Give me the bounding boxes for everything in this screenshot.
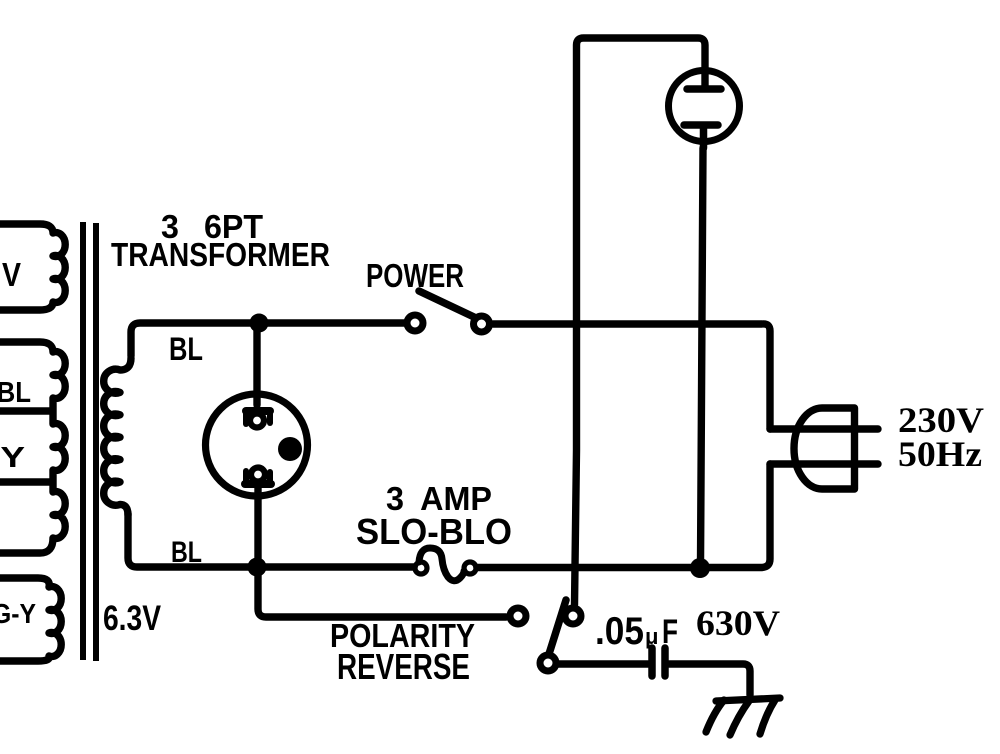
svg-text:V: V: [2, 256, 21, 293]
wire W2 tap -Y: [0, 478, 50, 485]
transformer T1 primary winding: [104, 358, 131, 515]
plug P1 top prong: [770, 425, 878, 432]
fuse F1 left terminal: [415, 562, 427, 574]
svg-text:BL: BL: [169, 331, 203, 367]
switch S1 POWER right contact: [474, 316, 490, 332]
connector J1 bottom pin: [245, 468, 271, 485]
svg-text:SLO-BLO: SLO-BLO: [356, 511, 512, 552]
junction dot bottom rail / lamp lead: [690, 558, 710, 578]
connector J1 top pin: [246, 411, 270, 428]
wire capacitor to ground: [669, 664, 750, 695]
wire bottom rail right: [477, 464, 770, 568]
ground: [706, 698, 780, 735]
transformer T1 secondary winding W3: [0, 578, 61, 661]
svg-text:630V: 630V: [696, 603, 780, 643]
switch S1 POWER blade: [419, 291, 474, 317]
switch S2 contact B: [565, 608, 581, 624]
svg-text:50Hz: 50Hz: [898, 434, 982, 474]
neon lamp DS1: [669, 71, 740, 149]
wire lamp bottom lead: [701, 148, 704, 564]
svg-text:6.3V: 6.3V: [103, 599, 162, 638]
svg-text:F: F: [662, 613, 678, 651]
switch S2 blade: [549, 600, 566, 654]
svg-text:-Y: -Y: [0, 442, 25, 474]
svg-text:μ: μ: [645, 624, 658, 649]
transformer T1 secondary winding W2: [0, 342, 65, 553]
svg-text:POWER: POWER: [366, 257, 464, 294]
svg-text:REVERSE: REVERSE: [337, 646, 470, 687]
capacitor C1 plates: [652, 648, 665, 676]
wire connector bottom pin to polarity switch: [258, 486, 506, 617]
svg-text:TRANSFORMER: TRANSFORMER: [111, 236, 330, 273]
wire connector top pin lead: [253, 323, 260, 405]
wire top rail left: [131, 323, 404, 356]
svg-text:-BL: -BL: [0, 377, 31, 409]
switch S2 contact A: [510, 608, 526, 624]
svg-text:.05: .05: [595, 610, 644, 653]
svg-text:G-Y: G-Y: [0, 598, 36, 629]
wire lamp loop: [575, 38, 706, 605]
junction dot top rail / connector pin: [250, 314, 269, 333]
switch S2 pivot contact C: [540, 655, 556, 671]
switch S1 POWER left contact: [407, 315, 423, 331]
connector J1 key dot: [278, 437, 302, 461]
svg-text:BL: BL: [171, 536, 202, 569]
connector J1 shell: [206, 394, 308, 496]
fuse F1 element: [419, 548, 464, 581]
wire W2 tap -BL: [0, 407, 50, 414]
wire bottom rail left: [128, 513, 414, 567]
plug P1 body: [794, 408, 855, 489]
junction dot bottom rail / connector lead: [248, 558, 267, 577]
wire switch to capacitor: [558, 660, 648, 667]
fuse F1 right terminal: [464, 562, 476, 574]
wire top rail right: [493, 324, 770, 429]
plug P1 bottom prong: [770, 460, 878, 467]
transformer T1 secondary winding W1: [0, 224, 65, 310]
transformer T1 core: [83, 222, 96, 661]
